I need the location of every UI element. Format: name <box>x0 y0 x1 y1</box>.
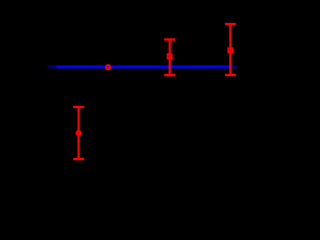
error bar A bottom cap <box>73 158 84 160</box>
error bar C vertical line <box>169 40 171 76</box>
fit line faint right tail <box>230 65 238 68</box>
data point D open square marker <box>228 48 232 52</box>
error bar D bottom cap <box>225 74 236 76</box>
error bar D top cap <box>225 23 236 25</box>
data point C open square marker <box>168 54 172 58</box>
data point A open circle marker <box>76 131 82 136</box>
data point B open circle marker on fit line <box>105 65 111 70</box>
error bar A vertical line <box>77 107 79 159</box>
error bar D vertical line <box>229 24 231 75</box>
fit line faint left tail <box>46 65 57 68</box>
error bar A top cap <box>73 106 84 108</box>
error bar C top cap <box>164 38 175 40</box>
fit line (blue) <box>57 65 231 68</box>
error bar C bottom cap <box>164 74 175 76</box>
